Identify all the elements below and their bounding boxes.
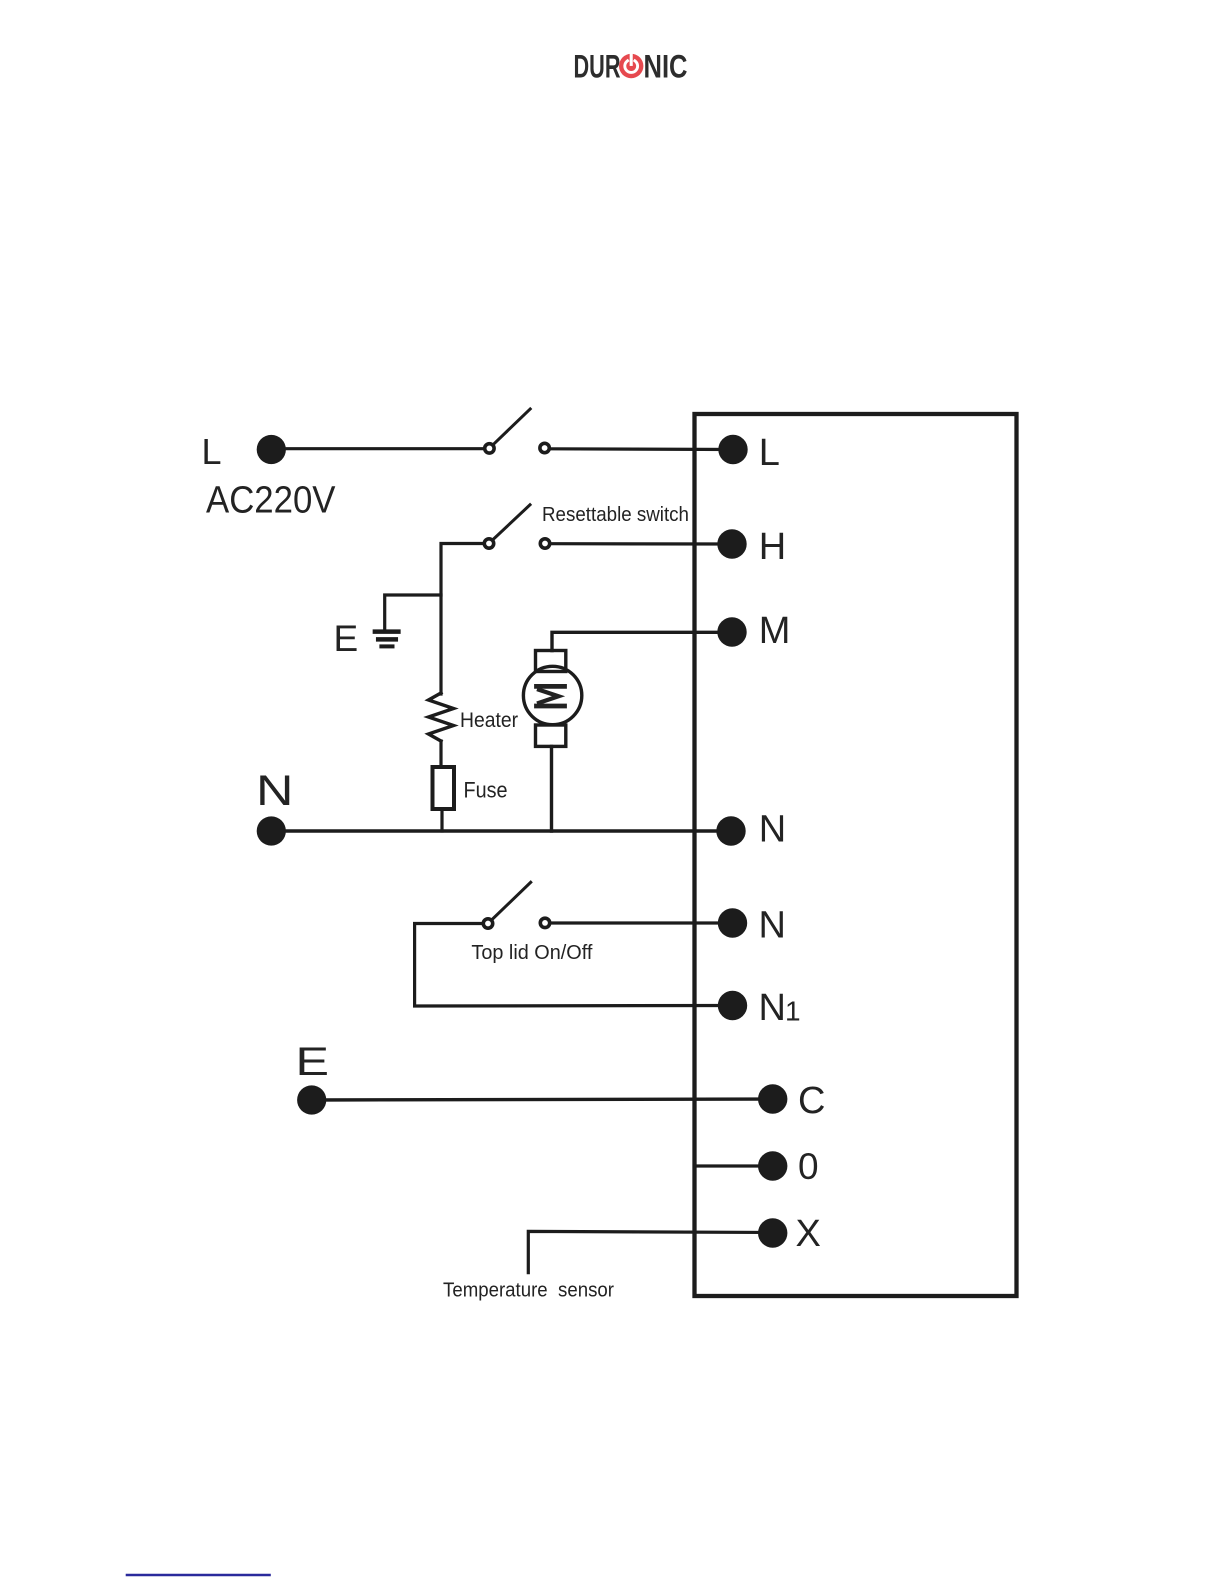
node E (earth) dot xyxy=(297,1085,326,1114)
svg-text:E: E xyxy=(296,1040,330,1084)
motor M body xyxy=(523,666,581,724)
wire resettable switch left branch xyxy=(441,544,484,695)
wire terminal M to motor xyxy=(552,632,732,650)
motor M letter (M rotated 90deg) xyxy=(537,686,565,706)
node L (mains live) dot xyxy=(257,435,286,464)
resistor heater xyxy=(429,693,454,741)
terminal N1 dot xyxy=(718,991,747,1020)
motor M top terminal block xyxy=(536,651,566,672)
terminal C dot xyxy=(758,1084,787,1113)
svg-text:DUR: DUR xyxy=(574,49,621,85)
svg-text:N: N xyxy=(256,767,294,815)
wire resettable switch to terminal H xyxy=(551,542,732,545)
wire branch to earth xyxy=(385,595,441,630)
svg-text:NIC: NIC xyxy=(644,49,688,85)
wire mains L dot to switch xyxy=(271,447,483,450)
terminal H dot xyxy=(717,529,746,558)
terminal N dot xyxy=(716,816,745,845)
svg-text:N: N xyxy=(759,905,786,947)
svg-text:X: X xyxy=(796,1213,821,1255)
svg-text:L: L xyxy=(759,432,780,474)
svg-text:N: N xyxy=(759,809,786,851)
terminal N (top lid) dot xyxy=(718,908,747,937)
motor M bottom terminal block xyxy=(536,725,566,746)
svg-text:L: L xyxy=(202,431,222,472)
svg-text:Top lid On/Off: Top lid On/Off xyxy=(471,942,592,964)
wire switch to terminal L xyxy=(551,447,734,451)
terminal L dot xyxy=(718,435,747,464)
svg-text:H: H xyxy=(759,526,786,568)
wire fuse to N rail xyxy=(440,809,443,831)
Duronic logo power icon xyxy=(619,54,643,78)
fuse xyxy=(433,767,455,809)
control box outline xyxy=(695,414,1017,1296)
ground symbol xyxy=(375,632,399,647)
svg-text:N: N xyxy=(759,987,786,1029)
resettable switch xyxy=(484,505,549,548)
wire terminal 0 xyxy=(695,1164,773,1167)
svg-text:Temperature sensor: Temperature sensor xyxy=(443,1280,614,1302)
svg-text:Fuse: Fuse xyxy=(464,778,508,803)
top lid switch xyxy=(483,882,549,928)
terminal 0 dot xyxy=(758,1151,787,1180)
svg-text:M: M xyxy=(759,610,791,652)
wire E to terminal C xyxy=(312,1099,773,1100)
wire heater to fuse xyxy=(439,741,442,767)
svg-text:Heater: Heater xyxy=(460,709,518,732)
svg-text:1: 1 xyxy=(785,996,801,1027)
terminal M dot xyxy=(717,617,746,646)
wire motor to N rail xyxy=(550,746,553,831)
svg-text:E: E xyxy=(334,618,359,659)
svg-text:Resettable switch: Resettable switch xyxy=(542,504,689,526)
terminal X dot xyxy=(758,1218,787,1247)
wire N rail xyxy=(271,829,731,832)
temperature sensor wire xyxy=(528,1231,772,1272)
wire top lid switch to terminal N xyxy=(551,921,733,924)
svg-text:AC220V: AC220V xyxy=(206,480,336,522)
svg-text:C: C xyxy=(798,1080,825,1122)
wire top lid switch to terminal N1 xyxy=(415,924,733,1007)
svg-text:0: 0 xyxy=(798,1146,819,1187)
power switch on L line xyxy=(485,409,550,453)
node N (mains neutral) dot xyxy=(257,816,286,845)
blue footer line xyxy=(127,1574,270,1577)
